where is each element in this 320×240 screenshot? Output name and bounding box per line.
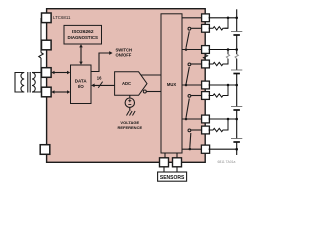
resistor R9 <box>209 128 228 131</box>
svg-text:ON/OFF: ON/OFF <box>116 53 132 58</box>
wire elbow S11 to C11 node with break <box>225 59 229 64</box>
pin C0 <box>201 145 209 153</box>
wire C10 to battery bus <box>209 84 237 86</box>
wire C0 to battery bus <box>209 148 237 150</box>
op-amp U1 LTC6811 IC block <box>47 9 206 163</box>
wire C9 to battery bus <box>209 118 237 120</box>
switch Q10 <box>188 95 191 98</box>
pin C11 <box>202 46 210 54</box>
pin IMA <box>42 87 52 97</box>
wire S12 row inside <box>191 27 204 29</box>
voltage reference V1 <box>129 95 131 98</box>
battery bus wire <box>236 9 238 31</box>
wire S11 row inside <box>191 63 204 65</box>
wire elbow S12 to C12 node <box>225 18 229 29</box>
pin IPA <box>42 68 52 78</box>
wire ISO to DATA double arrow <box>80 47 82 63</box>
wire S10 row inside <box>191 95 204 97</box>
wire C9 row inside <box>182 118 204 120</box>
transformer T1 <box>15 72 42 93</box>
switch Q9 <box>188 129 191 132</box>
svg-text:6811 TA01a: 6811 TA01a <box>218 160 236 164</box>
wire <box>236 74 238 107</box>
pin left 2 <box>42 40 52 50</box>
svg-text:I/O: I/O <box>78 84 85 89</box>
battery B10 <box>231 106 242 108</box>
resistor R11 <box>209 62 228 65</box>
wire C12 to battery bus <box>209 17 237 19</box>
wire MUX to ADC lower with bubble <box>146 91 161 93</box>
data I/O block <box>71 65 92 104</box>
svg-text:DATA: DATA <box>75 78 88 83</box>
pin S10 <box>202 92 210 100</box>
resistor R10 <box>209 94 228 97</box>
battery B12 <box>231 31 242 33</box>
wire C12 row inside <box>182 17 204 19</box>
switch Q11 <box>188 63 191 66</box>
wire break mark elbow <box>226 54 229 59</box>
ISO26262 diagnostics block <box>64 25 102 44</box>
svg-text:SENSORS: SENSORS <box>160 175 185 181</box>
wire IMA arrow <box>54 91 69 93</box>
ground <box>127 111 136 116</box>
wire MUX to ADC upper <box>141 74 161 76</box>
wire C11 to battery bus <box>209 49 237 51</box>
bus slash and label 16 <box>98 82 102 88</box>
wire 16-bit bus <box>94 84 115 86</box>
battery B9 <box>231 138 242 140</box>
wire elbow S10 to C10 node <box>225 85 229 96</box>
wire C11 row inside <box>182 49 204 51</box>
switch Q12 <box>188 27 191 30</box>
wire S9 row inside <box>191 129 204 131</box>
wire left outside vertical link <box>40 18 42 53</box>
wire break mark left <box>39 53 43 59</box>
wire <box>236 142 238 155</box>
pin sensor 1 <box>160 158 169 167</box>
wire sensor pin 1 to sensors box <box>163 167 165 172</box>
svg-text:ADC: ADC <box>122 81 131 86</box>
wire <box>40 58 42 92</box>
battery B11 <box>231 69 242 71</box>
wire <box>236 35 238 54</box>
wire switch on/off <box>91 53 110 72</box>
wire C0 row inside <box>182 148 204 150</box>
sensors box <box>158 172 187 181</box>
ADC block <box>115 72 147 96</box>
wire <box>236 110 238 139</box>
svg-text:16: 16 <box>97 76 102 81</box>
pin C9 <box>202 115 210 123</box>
wire break mark right <box>203 55 207 60</box>
pin S11 <box>202 60 210 68</box>
svg-text:LTC6811: LTC6811 <box>53 15 71 20</box>
svg-text:REFERENCE: REFERENCE <box>117 125 142 130</box>
wire sensor pin 2 to sensors box <box>176 167 178 172</box>
pin bottom left <box>40 145 50 155</box>
wire C10 row inside <box>182 84 204 86</box>
pin sensor 2 <box>173 158 182 167</box>
resistor R12 <box>209 27 228 30</box>
wire break mark bus <box>235 54 238 59</box>
pin C10 <box>202 81 210 89</box>
svg-text:DIAGNOSTICS: DIAGNOSTICS <box>67 35 98 40</box>
mux U2 <box>161 14 182 153</box>
pin S9 <box>202 126 210 134</box>
pin S12 <box>202 24 210 32</box>
svg-text:MUX: MUX <box>167 82 177 87</box>
pin IPB top left <box>42 13 52 23</box>
wire MUX to sensor pins <box>164 153 166 158</box>
wire IPA arrow <box>54 72 69 74</box>
pin C12 <box>202 14 210 22</box>
wire elbow S9 to C9 node <box>225 119 229 130</box>
